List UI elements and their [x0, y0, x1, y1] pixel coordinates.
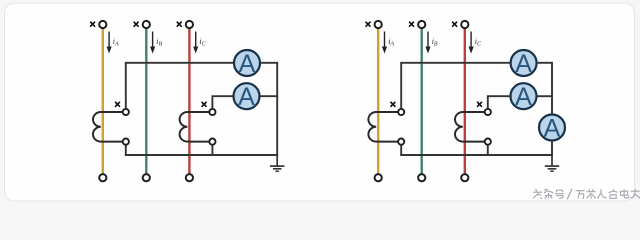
ammeter A1 (right): [511, 50, 537, 78]
phase B top terminal (right): [418, 21, 425, 28]
watermark "头条号 / 万供久台电力" bottom-right: [533, 189, 640, 200]
CT C secondary top terminal (right): [485, 109, 491, 115]
CT secondary winding on phase C (right): [455, 112, 485, 142]
wire: CT A bottom terminal down to bottom bus (right): [400, 146, 402, 156]
phase A bottom terminal (right): [375, 174, 382, 181]
phase C polarity mark (right): [453, 22, 457, 26]
current arrow iA (right): [382, 32, 395, 54]
phase B conductor (right): [421, 29, 423, 174]
wire: CT C top terminal up and right to ammeter A2 (left): [212, 96, 232, 108]
CT A secondary bottom terminal (left): [123, 139, 129, 145]
wire: CT A top terminal up to top bus (left): [125, 63, 127, 108]
phase B bottom terminal (right): [418, 174, 425, 181]
phase A polarity mark (right): [366, 22, 370, 26]
bottom bus (left): [125, 154, 278, 156]
svg-text:A: A: [515, 50, 532, 78]
CT secondary winding on phase A (left): [93, 112, 123, 142]
current arrow iC (right): [469, 32, 483, 54]
svg-text:A: A: [544, 114, 561, 142]
CT A secondary polarity mark (right): [391, 102, 395, 106]
phase A conductor (left): [102, 29, 104, 174]
phase C conductor (right): [464, 29, 466, 174]
wire: A2 right to collector (right): [538, 95, 553, 97]
CT A secondary polarity mark (left): [116, 102, 120, 106]
CT secondary winding on phase A (right): [368, 112, 398, 142]
current arrow iB (right): [425, 32, 438, 54]
wire: A2 right to collector (left): [261, 95, 279, 97]
collector wire down to ammeter A3 (right): [551, 63, 553, 114]
wire: CT A top terminal up to top bus (right): [400, 63, 402, 108]
current arrow iA (left): [107, 32, 120, 54]
wire: CT C bottom terminal down to bottom bus (right): [487, 146, 489, 156]
bottom bus (right): [400, 154, 553, 156]
ammeter A2 (right): [511, 83, 537, 111]
phase C bottom terminal (left): [186, 174, 193, 181]
phase A top terminal (right): [375, 21, 382, 28]
phase C polarity mark (left): [177, 22, 181, 26]
ammeter A1 (left): [234, 50, 260, 78]
collector wire down to bottom bus (left): [276, 63, 278, 155]
svg-text:A: A: [238, 83, 255, 111]
ground symbol (left): [270, 155, 284, 171]
phase A bottom terminal (left): [99, 174, 106, 181]
current arrow iB (left): [150, 32, 163, 54]
phase C top terminal (left): [186, 21, 193, 28]
CT C secondary bottom terminal (left): [209, 139, 215, 145]
CT C secondary bottom terminal (right): [485, 139, 491, 145]
phase A top terminal (left): [99, 21, 106, 28]
CT A secondary top terminal (left): [123, 109, 129, 115]
phase B polarity mark (right): [410, 22, 414, 26]
svg-text:A: A: [239, 50, 256, 78]
ammeter A2 (left): [234, 83, 260, 111]
ground symbol (right): [545, 155, 559, 171]
phase C top terminal (right): [461, 21, 468, 28]
current arrow iC (left): [193, 32, 207, 54]
wire: top bus to ammeter A1 (left): [125, 62, 233, 64]
phase C conductor (left): [188, 29, 190, 174]
wire: CT A bottom terminal down to bottom bus (left): [125, 146, 127, 156]
phase C bottom terminal (right): [461, 174, 468, 181]
phase A conductor (right): [377, 29, 379, 174]
phase B top terminal (left): [143, 21, 150, 28]
ammeter A3 (right): [539, 114, 565, 142]
wire: A1 right to collector (right): [538, 62, 553, 64]
phase B bottom terminal (left): [143, 174, 150, 181]
phase B polarity mark (left): [134, 22, 138, 26]
CT A secondary bottom terminal (right): [398, 139, 404, 145]
wire: A1 right to collector (left): [261, 62, 278, 64]
CT C secondary top terminal (left): [209, 109, 215, 115]
wire: CT C bottom terminal down to bottom bus (left): [211, 146, 213, 156]
CT secondary winding on phase C (left): [180, 112, 210, 142]
CT A secondary top terminal (right): [398, 109, 404, 115]
phase B conductor (left): [145, 29, 147, 174]
CT C secondary polarity mark (right): [478, 102, 482, 106]
phase A polarity mark (left): [91, 22, 95, 26]
CT C secondary polarity mark (left): [202, 102, 206, 106]
wire: top bus to ammeter A1 (right): [400, 62, 509, 64]
svg-text:A: A: [515, 83, 532, 111]
wire: A3 bottom to ground (right): [551, 142, 553, 156]
wire: CT C top terminal up and right to ammeter A2 (right): [488, 96, 510, 108]
